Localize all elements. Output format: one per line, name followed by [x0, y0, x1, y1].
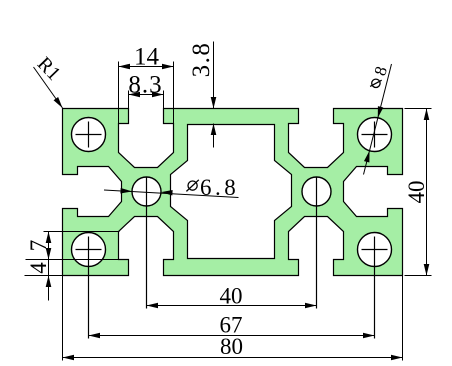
centerline crosshair bottom-left hole, extended to 67 dim: [76, 237, 102, 339]
corner hole bottom-left: [72, 233, 106, 267]
central cavity: [171, 125, 292, 259]
corner hole top-right: [358, 118, 392, 152]
dimension 80 (profile width): [63, 276, 403, 361]
core hole left (Ø6.8): [132, 177, 161, 206]
svg-text:14: 14: [134, 44, 160, 71]
centerline crosshair bottom-right hole, extended to 67 dim: [362, 237, 388, 339]
core hole right (Ø6.8): [302, 177, 331, 206]
svg-text:40: 40: [404, 181, 429, 204]
diameter callout Ø6.8 (left core hole): [104, 190, 239, 198]
corner hole bottom-right: [358, 233, 392, 267]
dimension 8.3 (top slot opening): [129, 91, 164, 125]
dimension 40 bottom (core hole spacing): [147, 305, 317, 307]
dimension 14 (top slot wide width): [119, 62, 174, 125]
dimension 67 (corner hole spacing): [89, 335, 375, 337]
svg-text:7: 7: [26, 240, 51, 252]
diameter callout Ø8 (top-right corner hole): [364, 64, 392, 175]
svg-text:8.3: 8.3: [128, 72, 162, 99]
centerline left core hole, extended to 40 dim: [146, 177, 148, 309]
svg-text:4: 4: [26, 262, 51, 274]
dimension 4 (bottom lip, rotated): [46, 276, 52, 288]
svg-text:80: 80: [220, 334, 243, 359]
centerline right core hole, extended to 40 dim: [316, 177, 318, 309]
centerline crosshair top-left hole: [76, 122, 102, 148]
dimension 7 (bottom slot, rotated): [25, 232, 120, 301]
profile outline (aluminium extrusion 40x80 cross-section): [63, 109, 403, 276]
svg-text:3.8: 3.8: [188, 42, 215, 78]
svg-text:6.8: 6.8: [200, 175, 239, 200]
svg-text:40: 40: [220, 284, 243, 309]
dimension 3.8 (top wall thickness, rotated): [213, 42, 215, 148]
centerline crosshair top-right hole: [362, 122, 388, 148]
dimension 40 right (profile height, rotated): [405, 109, 432, 276]
corner hole top-left: [72, 118, 106, 152]
radius callout R1: [34, 67, 63, 108]
